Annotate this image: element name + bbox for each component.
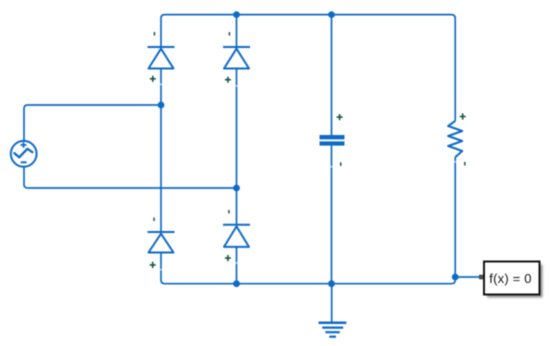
svg-text:f(x) = 0: f(x) = 0 xyxy=(489,271,531,286)
port gap C1 xyxy=(330,166,333,168)
wire C1 to bottom bus xyxy=(331,146,333,284)
label D2 minus xyxy=(229,32,231,36)
node ground junction xyxy=(328,280,335,287)
label R1 minus xyxy=(464,162,466,166)
port gap D2 xyxy=(235,85,238,87)
solver configuration block U1 xyxy=(484,262,543,298)
ground xyxy=(319,323,347,337)
wire bottom bus xyxy=(161,253,455,284)
label D1 plus xyxy=(150,76,156,82)
solver port square xyxy=(479,275,484,280)
label C1 minus xyxy=(340,162,342,166)
diode D3 xyxy=(148,232,175,253)
wire J1 to D2 xyxy=(236,15,238,47)
wire node C to solver port xyxy=(455,276,479,278)
port gap D4 xyxy=(235,262,238,264)
resistor R1 xyxy=(448,121,462,157)
wire D2 to node B xyxy=(236,69,238,189)
wire AC minus to node B xyxy=(24,167,237,188)
diode D2 xyxy=(223,47,250,69)
label D4 minus xyxy=(228,210,230,214)
node J1 xyxy=(233,11,240,18)
node J2 xyxy=(328,11,335,18)
label D4 plus xyxy=(225,255,231,261)
port gap R1 xyxy=(453,161,456,163)
capacitor C1 xyxy=(320,137,345,143)
wire node A to D3 xyxy=(160,105,162,232)
wire AC plus to node A xyxy=(24,105,161,141)
node C xyxy=(452,274,459,281)
label D3 plus xyxy=(150,262,156,268)
label D2 plus xyxy=(225,77,231,83)
node D4-bus xyxy=(233,280,240,287)
wire D4 to bottom bus xyxy=(236,247,238,284)
wire J2 to C1 xyxy=(331,15,333,136)
wire D1 to node A xyxy=(160,69,162,106)
diode D1 xyxy=(148,47,175,69)
wire top bus xyxy=(161,15,455,121)
AC source V1 xyxy=(11,141,37,167)
wire R1 to node C xyxy=(454,157,456,277)
node B xyxy=(233,185,240,192)
label C1 plus xyxy=(337,114,343,120)
port gap D3 xyxy=(159,269,162,271)
diode D4 xyxy=(223,225,250,247)
wire ground stem xyxy=(331,284,333,322)
port gap D1 xyxy=(159,83,162,85)
label D3 minus xyxy=(153,218,155,222)
node A xyxy=(158,102,165,109)
label R1 plus xyxy=(460,113,466,119)
wire node B to D4 xyxy=(236,188,238,225)
label D1 minus xyxy=(154,32,156,36)
